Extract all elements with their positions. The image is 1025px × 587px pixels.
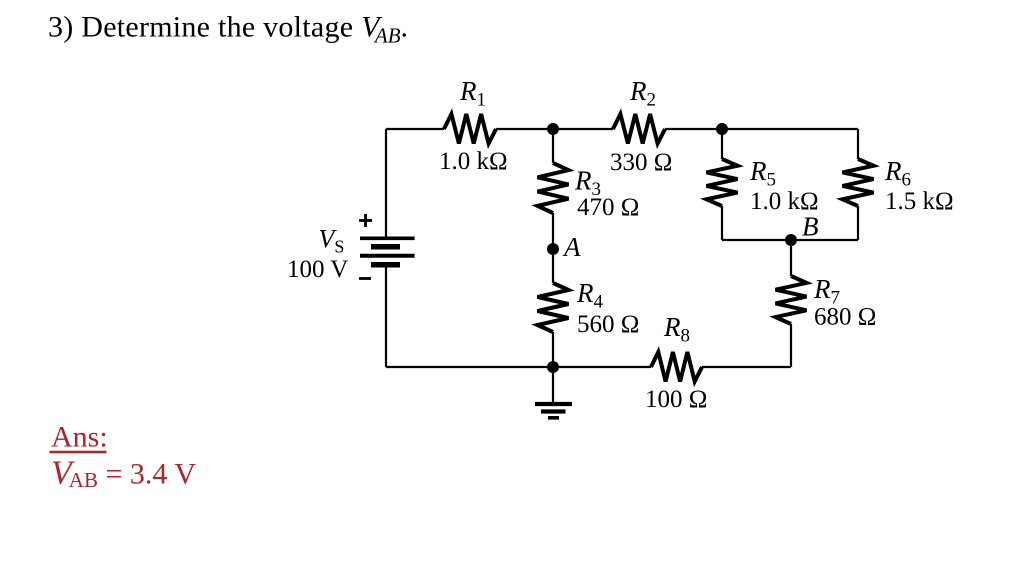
wire: R4 bottom lead to ground node (552, 332, 554, 367)
svg-text:VS: VS (319, 225, 345, 257)
wire: R5 bottom lead (721, 206, 723, 240)
battery VS: plate long top (360, 237, 415, 241)
node junction dot (ground node) (547, 361, 559, 373)
wire: R3 to node A (552, 213, 554, 249)
svg-text:VAB = 3.4 V: VAB = 3.4 V (51, 455, 196, 492)
svg-text:R8: R8 (663, 312, 690, 347)
svg-text:100 Ω: 100 Ω (645, 386, 707, 413)
svg-text:R1: R1 (459, 76, 486, 111)
svg-text:1.0 kΩ: 1.0 kΩ (439, 148, 508, 175)
battery VS: plus sign (359, 214, 372, 227)
node B dot (785, 234, 797, 246)
battery VS: minus sign (359, 277, 371, 280)
wire: bottom rail right segment (R8 to bottom-right corner) (702, 366, 791, 368)
wire: R7 bottom lead to bottom-right corner (790, 324, 792, 367)
wire: bottom rail left segment (corner to ground node) (386, 366, 553, 368)
node junction dot (top of R5 branch) (716, 123, 728, 135)
node A dot (547, 243, 559, 255)
wire: left rail upper (top corner down to battery +) (385, 129, 387, 237)
resistor R3 (vertical zigzag) (538, 163, 569, 213)
wire: R5 branch top lead (721, 129, 723, 159)
wire: top rail between node 1 and R2 (553, 128, 613, 130)
wire: R3 branch top lead (552, 129, 554, 163)
resistor R2 (zigzag) (613, 114, 665, 144)
wire: top rail from node 2 to top-right corner (722, 128, 858, 130)
wire: top rail left segment (from left corner to R1) (386, 128, 444, 130)
svg-text:R5: R5 (749, 156, 776, 191)
wire: node B rail (R5 bottom to R6 bottom) (722, 239, 858, 241)
ground: bar 1 (widest) (535, 402, 572, 406)
resistor R4 (vertical zigzag) (538, 283, 569, 332)
wire: bottom rail middle (ground node to R8) (553, 366, 651, 368)
wire: node A to R4 (552, 249, 554, 283)
wire: top rail between R2 and node 2 (665, 128, 722, 130)
svg-text:560 Ω: 560 Ω (577, 311, 639, 338)
title: 3) Determine the voltage VAB. (48, 11, 408, 48)
node junction dot (top of R3 branch) (547, 123, 559, 135)
resistor R5 (vertical zigzag) (707, 159, 738, 206)
wire: top rail between R1 and node 1 (496, 128, 553, 130)
svg-text:B: B (802, 212, 819, 242)
battery VS: plate short lower (371, 262, 400, 268)
svg-text:1.5 kΩ: 1.5 kΩ (885, 188, 954, 215)
wire: node B down to R7 (790, 240, 792, 276)
svg-text:Ans:: Ans: (51, 420, 108, 453)
wire: left rail lower (battery - down to bottom corner) (385, 268, 387, 368)
svg-text:330 Ω: 330 Ω (610, 149, 672, 176)
svg-text:470 Ω: 470 Ω (577, 194, 639, 221)
wire: R6 bottom lead (857, 206, 859, 240)
svg-text:R2: R2 (629, 76, 656, 111)
resistor R1 (zigzag) (444, 114, 496, 144)
ground: bar 3 (shortest) (548, 416, 559, 420)
svg-text:100 V: 100 V (287, 256, 348, 283)
ground: stem (552, 367, 554, 402)
battery VS: plate long bottom (360, 254, 415, 258)
svg-text:R6: R6 (884, 156, 911, 191)
ground: bar 2 (541, 409, 566, 413)
svg-text:3) Determine the voltage VAB.: 3) Determine the voltage VAB. (48, 11, 408, 48)
resistor R7 (vertical zigzag) (776, 276, 807, 324)
resistor R8 (zigzag) (651, 352, 702, 382)
svg-text:680 Ω: 680 Ω (814, 304, 876, 331)
wire: R6 branch top lead (from top-right corner) (857, 129, 859, 159)
svg-text:R4: R4 (576, 278, 604, 313)
svg-text:A: A (562, 232, 581, 262)
battery VS: plate short upper (371, 244, 400, 250)
resistor R6 (vertical zigzag) (843, 159, 874, 206)
